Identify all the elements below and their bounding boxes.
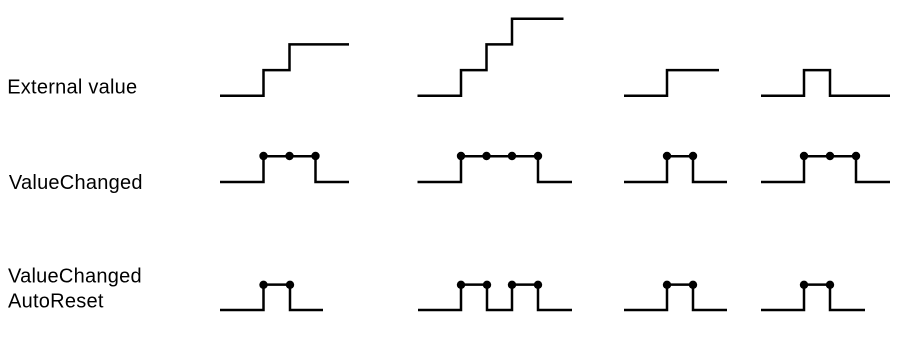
node sample dot r2c2-1: [457, 152, 465, 160]
node sample dot r3c4-1: [800, 281, 808, 289]
wire external-value waveform 2 (three-step staircase): [418, 19, 564, 96]
svg-text:External value: External value: [7, 76, 137, 98]
wire valuechanged waveform 2 (wide pulse): [418, 156, 573, 182]
svg-text:ValueChanged: ValueChanged: [8, 266, 142, 288]
node sample dot r2c3-2: [689, 152, 697, 160]
node sample dot r2c3-1: [663, 152, 671, 160]
wire valuechanged waveform 4 (wide pulse): [761, 156, 890, 182]
node sample dot r3c2-1: [457, 281, 465, 289]
svg-text:AutoReset: AutoReset: [8, 291, 104, 313]
node sample dot r2c4-2: [826, 152, 834, 160]
node sample dot r2c1-3: [311, 152, 319, 160]
node sample dot r2c1-2: [285, 152, 293, 160]
node sample dot r3c2-3: [508, 281, 516, 289]
wire autoreset waveform 2 (double pulse): [418, 285, 572, 310]
wire valuechanged waveform 1 (wide pulse): [220, 156, 349, 182]
wire valuechanged waveform 3 (narrow pulse): [624, 156, 727, 182]
node sample dot r2c2-3: [508, 152, 516, 160]
wire external-value waveform 4 (single pulse): [761, 70, 890, 96]
wire autoreset waveform 3 (single narrow pulse): [624, 285, 727, 310]
wire external-value waveform 1 (two-step staircase): [220, 44, 349, 95]
node sample dot r2c1-1: [259, 152, 267, 160]
node sample dot r3c4-2: [826, 281, 834, 289]
wire autoreset waveform 1 (single narrow pulse): [220, 285, 323, 310]
node sample dot r2c2-4: [534, 152, 542, 160]
node sample dot r3c1-2: [286, 281, 294, 289]
node sample dot r2c4-1: [800, 152, 808, 160]
svg-text:ValueChanged: ValueChanged: [9, 172, 143, 194]
node sample dot r3c2-4: [534, 281, 542, 289]
node sample dot r3c1-1: [259, 281, 267, 289]
node sample dot r3c3-1: [663, 281, 671, 289]
node sample dot r3c2-2: [483, 281, 491, 289]
node sample dot r2c4-3: [852, 152, 860, 160]
node sample dot r2c2-2: [482, 152, 490, 160]
wire external-value waveform 3 (single step): [624, 70, 719, 96]
wire autoreset waveform 4 (single narrow pulse): [761, 285, 865, 310]
node sample dot r3c3-2: [689, 281, 697, 289]
